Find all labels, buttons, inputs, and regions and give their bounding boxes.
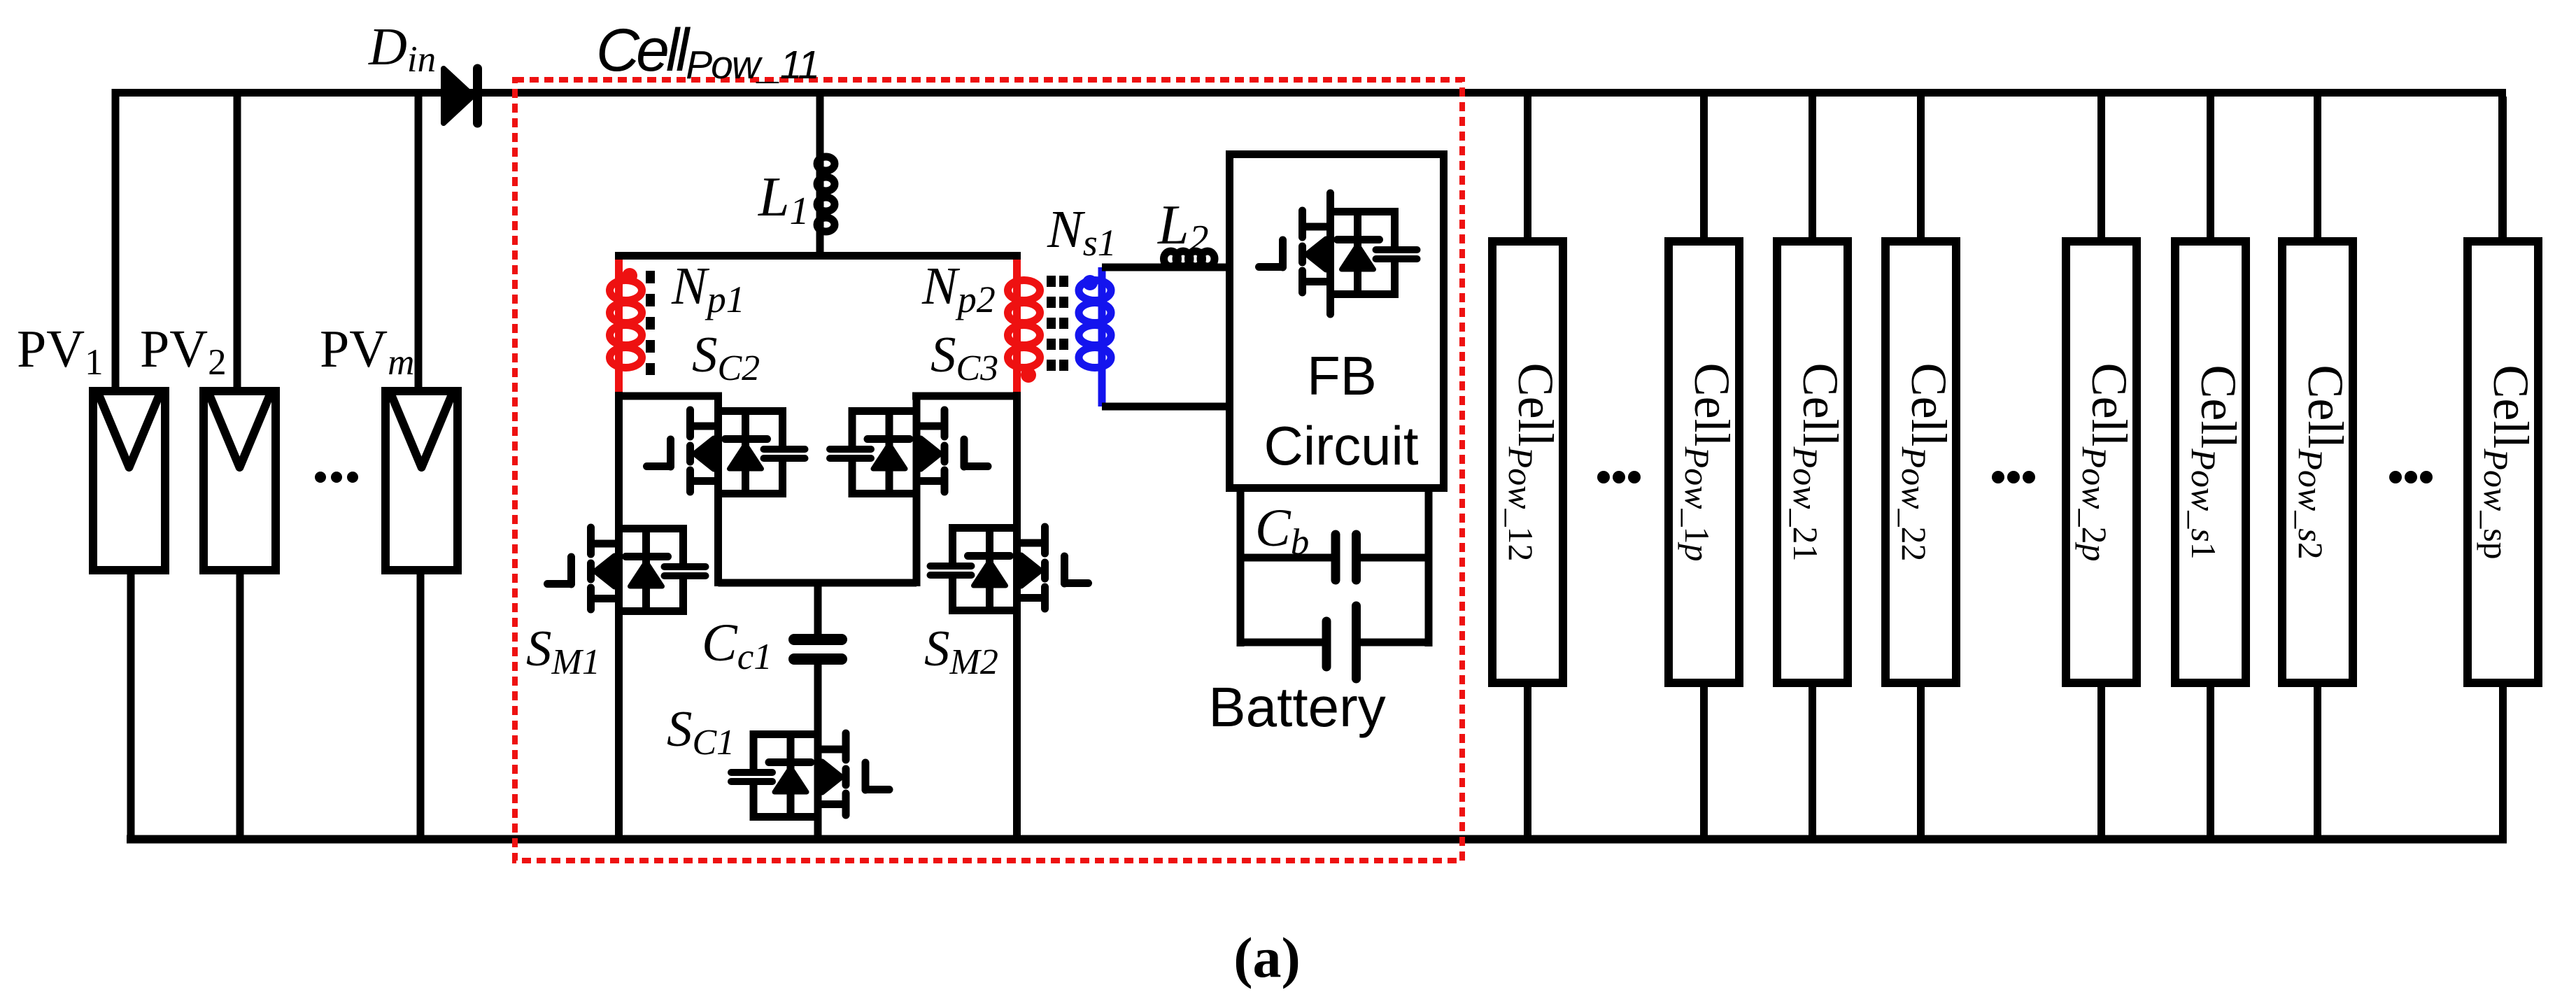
wire L1 top — [816, 93, 824, 158]
svg-text:CellPow_sp: CellPow_sp — [2477, 365, 2539, 559]
wire SC2 top tap — [615, 393, 722, 400]
svg-text:Ns1: Ns1 — [1047, 200, 1117, 264]
wire SC2 conductor — [714, 396, 722, 586]
wire PV1 bottom stub — [127, 570, 135, 840]
svg-text:L2: L2 — [1157, 195, 1209, 261]
MOSFET SM2 — [930, 525, 1089, 613]
capacitor Cc1 — [794, 639, 842, 659]
dots between CellPow_22 and CellPow_2p — [1992, 471, 2035, 483]
wire Cc1 bottom / SC1 conductor — [814, 660, 822, 840]
wire PV1 top vertical — [112, 89, 120, 392]
svg-text:FB: FB — [1307, 345, 1377, 406]
wire Ns1 top to FB — [1102, 264, 1226, 271]
svg-text:Np1: Np1 — [671, 257, 745, 320]
svg-text:CellPow_2p: CellPow_2p — [2075, 363, 2137, 562]
svg-text:Np2: Np2 — [921, 257, 996, 320]
winding Ns1 — [1079, 267, 1111, 406]
wire Cc1 top — [814, 583, 822, 637]
svg-text:CellPow_s1: CellPow_s1 — [2184, 365, 2246, 559]
wire battery loop left — [1237, 488, 1245, 646]
capacitor Cb — [1237, 535, 1432, 580]
wire right edge vertical — [2498, 93, 2506, 242]
svg-text:Din: Din — [368, 17, 436, 80]
svg-text:PV1: PV1 — [17, 320, 104, 383]
svg-text:SC1: SC1 — [667, 700, 735, 763]
wire transformer top bus — [615, 252, 1021, 260]
MOSFET SM1 — [548, 526, 706, 614]
wire mid bus — [719, 579, 917, 587]
dots between CellPow_12 and CellPow_1p — [1597, 471, 1641, 483]
wire bottom bus — [127, 835, 2507, 844]
wire battery loop right — [1425, 488, 1433, 646]
svg-text:Battery: Battery — [1208, 676, 1385, 738]
MOSFET inside FB block — [1259, 193, 1417, 314]
svg-text:SM1: SM1 — [526, 620, 600, 682]
svg-text:Circuit: Circuit — [1264, 415, 1418, 476]
winding Np1 — [610, 260, 642, 396]
cell CellPow_s2 — [2282, 97, 2354, 840]
cell CellPow_1p — [1669, 97, 1740, 840]
MOSFET SC3 — [830, 409, 988, 496]
svg-text:CellPow_11: CellPow_11 — [596, 17, 819, 87]
svg-text:Cc1: Cc1 — [702, 614, 772, 677]
diode Din — [444, 69, 478, 123]
svg-text:CellPow_s2: CellPow_s2 — [2291, 365, 2354, 559]
cell CellPow_sp — [2468, 97, 2539, 840]
wire SC3 top tap — [912, 393, 1021, 400]
dots between PV2 and PVm — [315, 472, 358, 483]
dots between CellPow_s2 and CellPow_sp — [2389, 471, 2433, 483]
svg-text:PVm: PVm — [320, 320, 414, 383]
wire SC3 conductor — [913, 396, 921, 586]
wire left vertical (Np1 to bottom bus) — [615, 392, 623, 840]
cell CellPow_22 — [1885, 97, 1957, 840]
polarity dot Ns1 — [1082, 275, 1098, 290]
polarity dot Np2 — [1021, 367, 1036, 383]
svg-text:PV2: PV2 — [140, 320, 227, 383]
svg-text:Cb: Cb — [1255, 499, 1309, 563]
wire PVm top vertical — [415, 93, 423, 393]
battery — [1237, 606, 1432, 679]
dashed boundary box CellPow_11 — [515, 80, 1462, 861]
wire top bus — [112, 89, 2506, 97]
transformer core (Np2/Ns1) — [1052, 276, 1064, 375]
svg-text:(a): (a) — [1233, 926, 1301, 989]
PV module PV1 — [93, 391, 165, 570]
MOSFET SC1 — [731, 732, 889, 819]
wire PV2 top vertical — [234, 93, 241, 393]
inductor L1 — [817, 150, 835, 255]
svg-text:SC3: SC3 — [930, 326, 998, 388]
cell CellPow_2p — [2066, 97, 2137, 840]
cell CellPow_12 — [1492, 97, 1564, 840]
winding Np2 — [1008, 260, 1040, 396]
wire Ns1 bottom to FB — [1102, 403, 1226, 411]
inductor L2 — [1164, 251, 1215, 267]
transformer core (Np1) — [646, 271, 655, 375]
svg-text:SC2: SC2 — [692, 326, 760, 388]
MOSFET SC2 — [647, 409, 805, 496]
PV module PVm — [385, 391, 458, 570]
cell CellPow_21 — [1777, 97, 1848, 840]
FB circuit block — [1230, 155, 1444, 488]
wire PVm bottom stub — [417, 570, 425, 840]
svg-text:CellPow_21: CellPow_21 — [1786, 363, 1848, 562]
svg-text:L1: L1 — [758, 167, 809, 233]
svg-text:CellPow_12: CellPow_12 — [1501, 363, 1564, 562]
svg-text:CellPow_1p: CellPow_1p — [1678, 363, 1740, 562]
svg-text:CellPow_22: CellPow_22 — [1895, 363, 1957, 562]
polarity dot Np1 — [622, 268, 637, 283]
PV module PV2 — [204, 391, 276, 570]
wire right vertical (Np2 to bottom bus) — [1013, 392, 1021, 840]
wire PV2 bottom stub — [236, 570, 244, 840]
cell CellPow_s1 — [2175, 97, 2246, 840]
svg-text:SM2: SM2 — [924, 620, 998, 682]
